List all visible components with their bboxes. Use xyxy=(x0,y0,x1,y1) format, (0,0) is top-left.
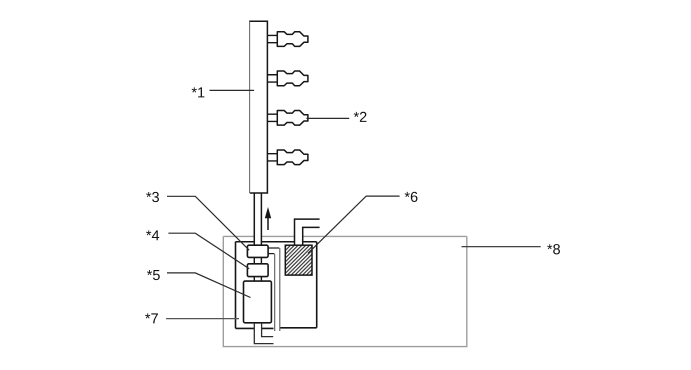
label *8 xyxy=(547,244,560,254)
pump module top plate line (with gaps) xyxy=(236,241,317,243)
delivery pipe (fuel rail) *1 xyxy=(250,21,268,193)
filter box *4 xyxy=(247,264,268,277)
pump outlet elbow xyxy=(254,323,273,344)
jet pump *6 hatched box xyxy=(285,245,312,275)
return tube from *3 down (two walls, thin) xyxy=(268,248,279,254)
label *1 xyxy=(192,87,205,97)
main pipe from pump to rail xyxy=(254,193,261,245)
flow arrow xyxy=(267,213,269,230)
connector *3-*4 xyxy=(254,257,261,263)
label *6 xyxy=(405,192,418,202)
suction port box *3 xyxy=(247,245,268,257)
bracket *7 (left wall + bottom with gaps) xyxy=(236,242,274,329)
fuel pump box *5 xyxy=(244,281,272,323)
label *4 xyxy=(146,230,159,240)
connector *4-*5 xyxy=(254,277,261,282)
right compartment (right wall + bottom) xyxy=(280,242,317,328)
label *3 xyxy=(146,192,159,202)
label *7 xyxy=(145,313,158,323)
label *5 xyxy=(147,270,160,280)
elbow tubes into *6 xyxy=(295,219,320,245)
injector *2 x4 xyxy=(268,32,308,47)
label *2 xyxy=(354,112,367,122)
fuel tank *8 (gray outline with gaps on top edge for pipes) xyxy=(223,236,466,346)
